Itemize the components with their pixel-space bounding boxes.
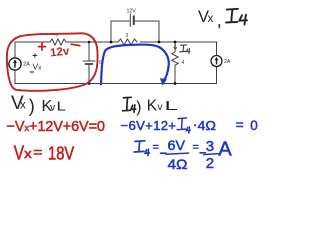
equation blue 1: -6V+12+I4·4ohm = 0 [121, 116, 258, 133]
svg-text:K: K [147, 98, 158, 115]
svg-text:6V: 6V [168, 137, 186, 153]
svg-text:3: 3 [126, 33, 129, 39]
junction node (battery branch, bottom) [88, 82, 91, 85]
annotation + 12v - (red, across 6ohm resistor) [39, 43, 80, 50]
equation blue 2: I4 = -6V/4ohm = -3/2 A [134, 137, 232, 172]
wire right side [216, 42, 218, 84]
wire 12V branch right vertical [158, 21, 160, 42]
current source I1 2A (left) [9, 58, 21, 70]
svg-text:−Vx+12V+6V=0: −Vx+12V+6V=0 [7, 119, 106, 135]
junction node (12V branch, right) [158, 41, 161, 44]
svg-text:L: L [165, 99, 179, 113]
svg-text:A: A [218, 139, 232, 161]
wire top middle segment [66, 41, 118, 43]
svg-text:x: x [20, 100, 26, 112]
svg-text:2: 2 [206, 155, 214, 172]
wire top-left segment [15, 41, 50, 43]
wire left side [14, 42, 16, 84]
svg-text:v: v [50, 102, 56, 114]
heading I glyph [226, 9, 247, 25]
wire bottom [15, 83, 217, 85]
junction node (battery branch, top) [88, 41, 91, 44]
svg-text:x: x [24, 147, 32, 161]
svg-text:V: V [14, 142, 25, 164]
svg-text:,: , [217, 14, 221, 30]
svg-text:=: = [193, 142, 199, 154]
svg-text:=: = [236, 118, 244, 133]
annotation I4 label (handwritten) [180, 45, 190, 54]
svg-text:0: 0 [250, 118, 258, 133]
svg-text:4Ω: 4Ω [198, 118, 217, 133]
svg-text:=: = [153, 142, 159, 154]
junction node (4ohm branch, bottom) [174, 82, 177, 85]
svg-text:v: v [158, 102, 163, 113]
svg-text:3: 3 [206, 138, 214, 155]
svg-text:12V: 12V [127, 9, 137, 15]
junction node (12V branch, left) [110, 41, 113, 44]
wire 12V branch left vertical [110, 21, 112, 42]
svg-text:4: 4 [182, 60, 185, 66]
resistor R 3ohm [118, 39, 137, 45]
svg-text:x: x [208, 13, 214, 25]
svg-text:4Ω: 4Ω [168, 156, 188, 172]
label I4) KVL (black) [123, 97, 136, 112]
svg-text:): ) [29, 96, 35, 116]
KVL loop 1 (red, left mesh) [7, 33, 98, 91]
wire top right segment [140, 41, 217, 43]
svg-text:=: = [33, 144, 43, 160]
svg-text:18V: 18V [48, 142, 75, 163]
svg-text:): ) [136, 99, 141, 116]
wire resistor-4 branch + resistor R 4ohm [172, 42, 178, 84]
svg-text:12v: 12v [50, 45, 71, 59]
annotation I4 current arrow [174, 44, 177, 49]
svg-text:L: L [57, 100, 67, 114]
svg-text:−6V+12+: −6V+12+ [121, 118, 177, 133]
resistor R 6ohm (top of left mesh) [50, 39, 66, 45]
junction node (4ohm branch, top) [174, 41, 177, 44]
wire 12V branch top horizontal [111, 20, 159, 22]
current source I2 2A (right) [211, 56, 222, 67]
svg-text:2A: 2A [224, 59, 231, 65]
battery B1 6V plates [83, 60, 95, 62]
annotation Vx polarity - (black) [30, 71, 34, 73]
annotation Vx polarity + (black) [33, 53, 38, 58]
battery B2 12V plates [129, 14, 131, 27]
KVL loop 2 (blue, middle mesh) with arrowhead [101, 45, 169, 85]
equation red 2: Vx= 18V [14, 142, 75, 164]
svg-text:2A: 2A [23, 62, 30, 68]
wire battery branch 6V [88, 42, 90, 84]
